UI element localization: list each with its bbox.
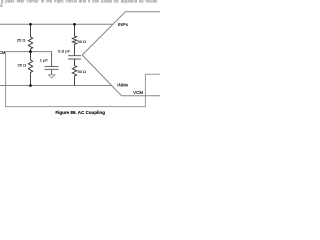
svg-text:INPx: INPx: [118, 22, 129, 27]
resistor R4 50ohm bottom: [72, 59, 76, 86]
svg-text:50 Ω: 50 Ω: [78, 39, 87, 44]
svg-text:VCM: VCM: [133, 90, 143, 95]
ground: [48, 75, 55, 78]
ADC chevron boundary: [82, 12, 160, 96]
svg-text:1 μF: 1 μF: [40, 57, 49, 62]
wire: VCM routing loop to device: [6, 52, 160, 107]
wire: INMx bottom rail: [0, 85, 112, 87]
capacitor C1 1uF: [45, 52, 59, 75]
svg-text:Figure 89. AC Coupling: Figure 89. AC Coupling: [55, 110, 105, 115]
resistor R3 50ohm top: [72, 24, 76, 55]
wire: VCM node horizontal: [6, 51, 52, 53]
svg-text:INMx: INMx: [117, 83, 129, 88]
svg-text:25 Ω: 25 Ω: [18, 62, 27, 67]
svg-text:VCM: VCM: [0, 50, 5, 55]
node dot top rail / R1: [29, 23, 32, 26]
svg-text:25 Ω: 25 Ω: [17, 38, 26, 43]
capacitor C2 6.8pF: [68, 56, 81, 59]
node dot bottom rail / R2: [29, 84, 32, 87]
resistor R2 25ohm bottom: [28, 52, 32, 86]
svg-text:50 Ω: 50 Ω: [78, 69, 87, 74]
resistor R1 25ohm top: [28, 24, 32, 51]
node dot top rail / R3: [73, 23, 76, 26]
svg-text:6.8 pF: 6.8 pF: [58, 49, 70, 54]
wire: INPx top rail: [0, 23, 113, 25]
node dot VCM wire / R1-R2: [29, 50, 32, 53]
svg-text:d.: d.: [0, 3, 4, 8]
svg-text:g pass filter corner of the in: g pass filter corner of the input circui…: [1, 0, 158, 4]
